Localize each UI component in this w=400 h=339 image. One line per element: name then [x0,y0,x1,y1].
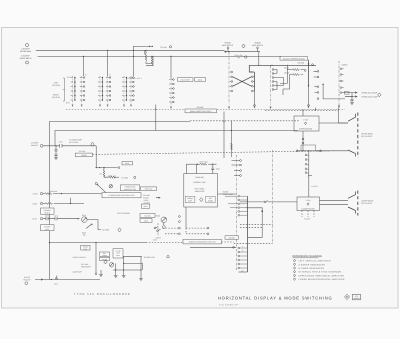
label box mode [225,236,239,239]
contact column mode feed [179,216,181,218]
wire right column rail [249,65,254,91]
switch contact column SW840L [317,70,319,99]
wire ladder rails nested [280,65,293,95]
terminal circle delay [312,64,314,66]
label box swp cal [141,187,157,191]
contacts mode middle [238,195,240,216]
label box delayed sweep [178,78,194,82]
switch wafer SW490 column [272,150,274,243]
wire drops into upper beam [303,108,315,116]
wire rows bottom [113,263,143,270]
wire upper beam to plates [319,122,348,124]
capacitor C472 [43,217,55,220]
amplifier lower beam V354 [297,197,320,211]
switch wafer SW4 [169,78,174,109]
label box sw490 horizontal display [183,239,222,244]
wire amp top rail [186,163,200,165]
capacitor C474 [55,276,58,280]
wire horizontal display line [50,242,147,244]
switch wafer SW7 tall right [338,61,340,106]
capacitor C487 [211,164,214,173]
reference diamond output [378,93,381,97]
CRT envelope dashed upper [357,113,359,158]
resistor R22 [151,56,153,58]
wire diagonal cathode [100,187,107,194]
wire rail ladder bottom arrow [308,86,310,108]
wire dashed contact rows [163,227,179,229]
wire heavy vertical V840 [308,60,310,86]
gang label box main sweep mag regis [185,109,217,113]
contacts wafer SW5 left [230,71,233,92]
capacitor to ground chain [55,146,58,157]
contacts wafer SW5 right column [251,71,254,92]
resistor R477 [43,203,46,205]
ganged switch line [66,108,345,110]
delay compensation label box [280,57,308,61]
wire bus2 +gate delayed [38,55,281,57]
label box lamp fuse [113,249,123,258]
wire output lower beam [345,96,357,98]
resistor R346 top [231,143,233,150]
wire to lower plate of upper pair [297,150,348,152]
wire into lower beam with contact [240,201,297,203]
wire V9 label drop [257,47,259,49]
amplifier cluster V474 [95,146,97,168]
wire amp lower leg [185,207,187,228]
contacts mode lower [238,247,240,269]
label box ext horiz [100,252,110,257]
resistor R482 vertical [103,168,105,170]
title diamond [345,294,350,299]
switch wafer SW5 crossing section [228,53,230,105]
label box MAG REGIS [140,219,152,223]
terminal cathode [95,182,97,184]
amplifier block V493 [184,174,218,208]
CRT envelope dashed lower [357,191,359,216]
reference diamond bottom [104,260,107,264]
wire stub L [145,50,153,65]
potentiometer R479 [82,217,88,223]
reference diamond horiz amp [91,142,94,146]
wire wafer SW2 to bus1 [107,50,109,76]
wire stubs mode lower [240,248,248,268]
CRT upper deflection plates [348,114,356,157]
resistor R486 [104,176,109,178]
label box SWEEP MAG [41,225,55,231]
switch wafer SW345 mode column [236,155,238,271]
wire output drop with capacitor [345,93,352,99]
sheet number box [353,294,361,300]
wire bus1b between labels [228,51,260,53]
label box atten [100,257,110,260]
potentiometer R480 arrow [86,224,92,229]
wire rail F bottom arrow [254,91,256,108]
label TO V504 [114,176,119,178]
label box MAG [141,204,149,208]
switch contact delay [304,70,306,72]
plug-in bracket [63,78,65,101]
wire stubs mode middle [240,196,248,215]
switch wafer SW3B [129,76,134,107]
wire drop x155.8 [155,105,157,131]
label box main sweep [195,78,206,82]
label box upper beam contrast [120,185,140,191]
wire beam divider chain [308,151,310,197]
wire long rail L2 [55,131,298,147]
contacts wafer SW6 with step wires [272,69,274,91]
reference list item 6 [293,278,295,281]
wire long rail L1 [50,122,191,280]
wire lower beam to plates [320,200,349,204]
label box R474 [122,162,133,165]
switch wafer SW6 [270,66,272,105]
pickoff coupling box [301,145,316,151]
wire mode rotor rail [247,196,249,272]
reference list item 4 [293,270,295,273]
label box SW MAG REGIS [41,208,55,214]
switch contact pair light [154,227,156,229]
reference diamond R489 [162,225,165,229]
contact pins chain [305,154,307,173]
wire feed corner x133 [133,46,152,76]
wire V8 label drop [227,47,229,49]
label box lower beam contrast adj [102,193,141,198]
reference list item 1 [293,259,295,262]
wire dashed bottom link [234,242,273,244]
small network under bus R21 [145,50,147,54]
switch wafer stub light [157,223,159,236]
label box SW845 [140,214,155,218]
reference diamond top [242,44,245,48]
wire bus1 +gate main [36,49,225,51]
switch wafer SW1B [80,76,85,107]
ground output [350,102,354,104]
capacitor C473 [55,217,80,220]
resistor R840B [293,74,300,76]
wire dashed link rows [240,225,273,228]
CRT lower deflection plates [348,192,356,214]
wire dashed top link [265,109,339,111]
wire drop x231.5 [231,121,233,157]
dashed stubs below lower beam [302,211,314,218]
wire amp to mode switch [218,193,237,195]
wire drop x224 [223,112,225,159]
wire mode feed left [190,246,236,248]
contacts wafer SW7 [340,68,344,93]
wire vertical drops [116,257,143,279]
wire b gate [35,279,100,281]
potentiometer R475 [109,263,113,267]
wire x96 drop [95,243,97,274]
potentiometer R489 [161,217,167,223]
ground cap chain [54,158,58,160]
label box sw490 mag [81,245,90,250]
wire bus3 [249,64,316,66]
grounds row [100,270,102,274]
wire pickoff [43,145,96,147]
switch wafer SW3A [122,76,127,107]
wire amp box drops [186,164,196,173]
terminal A sweep +gate main [26,44,29,47]
wire loop lower beam feed [246,208,262,238]
wire wafer SW5 top [228,51,230,54]
wire crossover X [233,77,252,86]
wire pot to V494 [87,220,101,230]
arrow on bus1 [224,51,228,53]
amplifier upper beam V345 [294,116,319,131]
capacitor C476 [60,144,63,148]
reference list item 5 [293,274,295,277]
wire to amp V474 [123,256,142,258]
switch wafer SW1A [71,76,76,107]
contacts mode upper [240,160,242,177]
wire rotor L [323,84,345,99]
reference list item 2 [293,263,295,266]
wire wafer SW1 to bus2 [82,56,84,76]
wire dashed pickoff line to CRT [93,151,330,155]
switch wafer SW2A [98,76,103,107]
capacitor C860 [351,100,354,103]
wire chain upper segment [302,131,304,151]
terminal A sweep del pickoff [40,144,43,147]
resistor R473 [43,193,45,195]
resistor R487 [200,163,207,165]
switch wafer SW2B [106,76,111,107]
potentiometer R478 [109,184,113,188]
resistor R840A [293,69,300,71]
reference list item 3 [293,267,295,270]
wire output upper beam [344,92,358,94]
wire wafer SW4 to bus2 [170,56,172,78]
